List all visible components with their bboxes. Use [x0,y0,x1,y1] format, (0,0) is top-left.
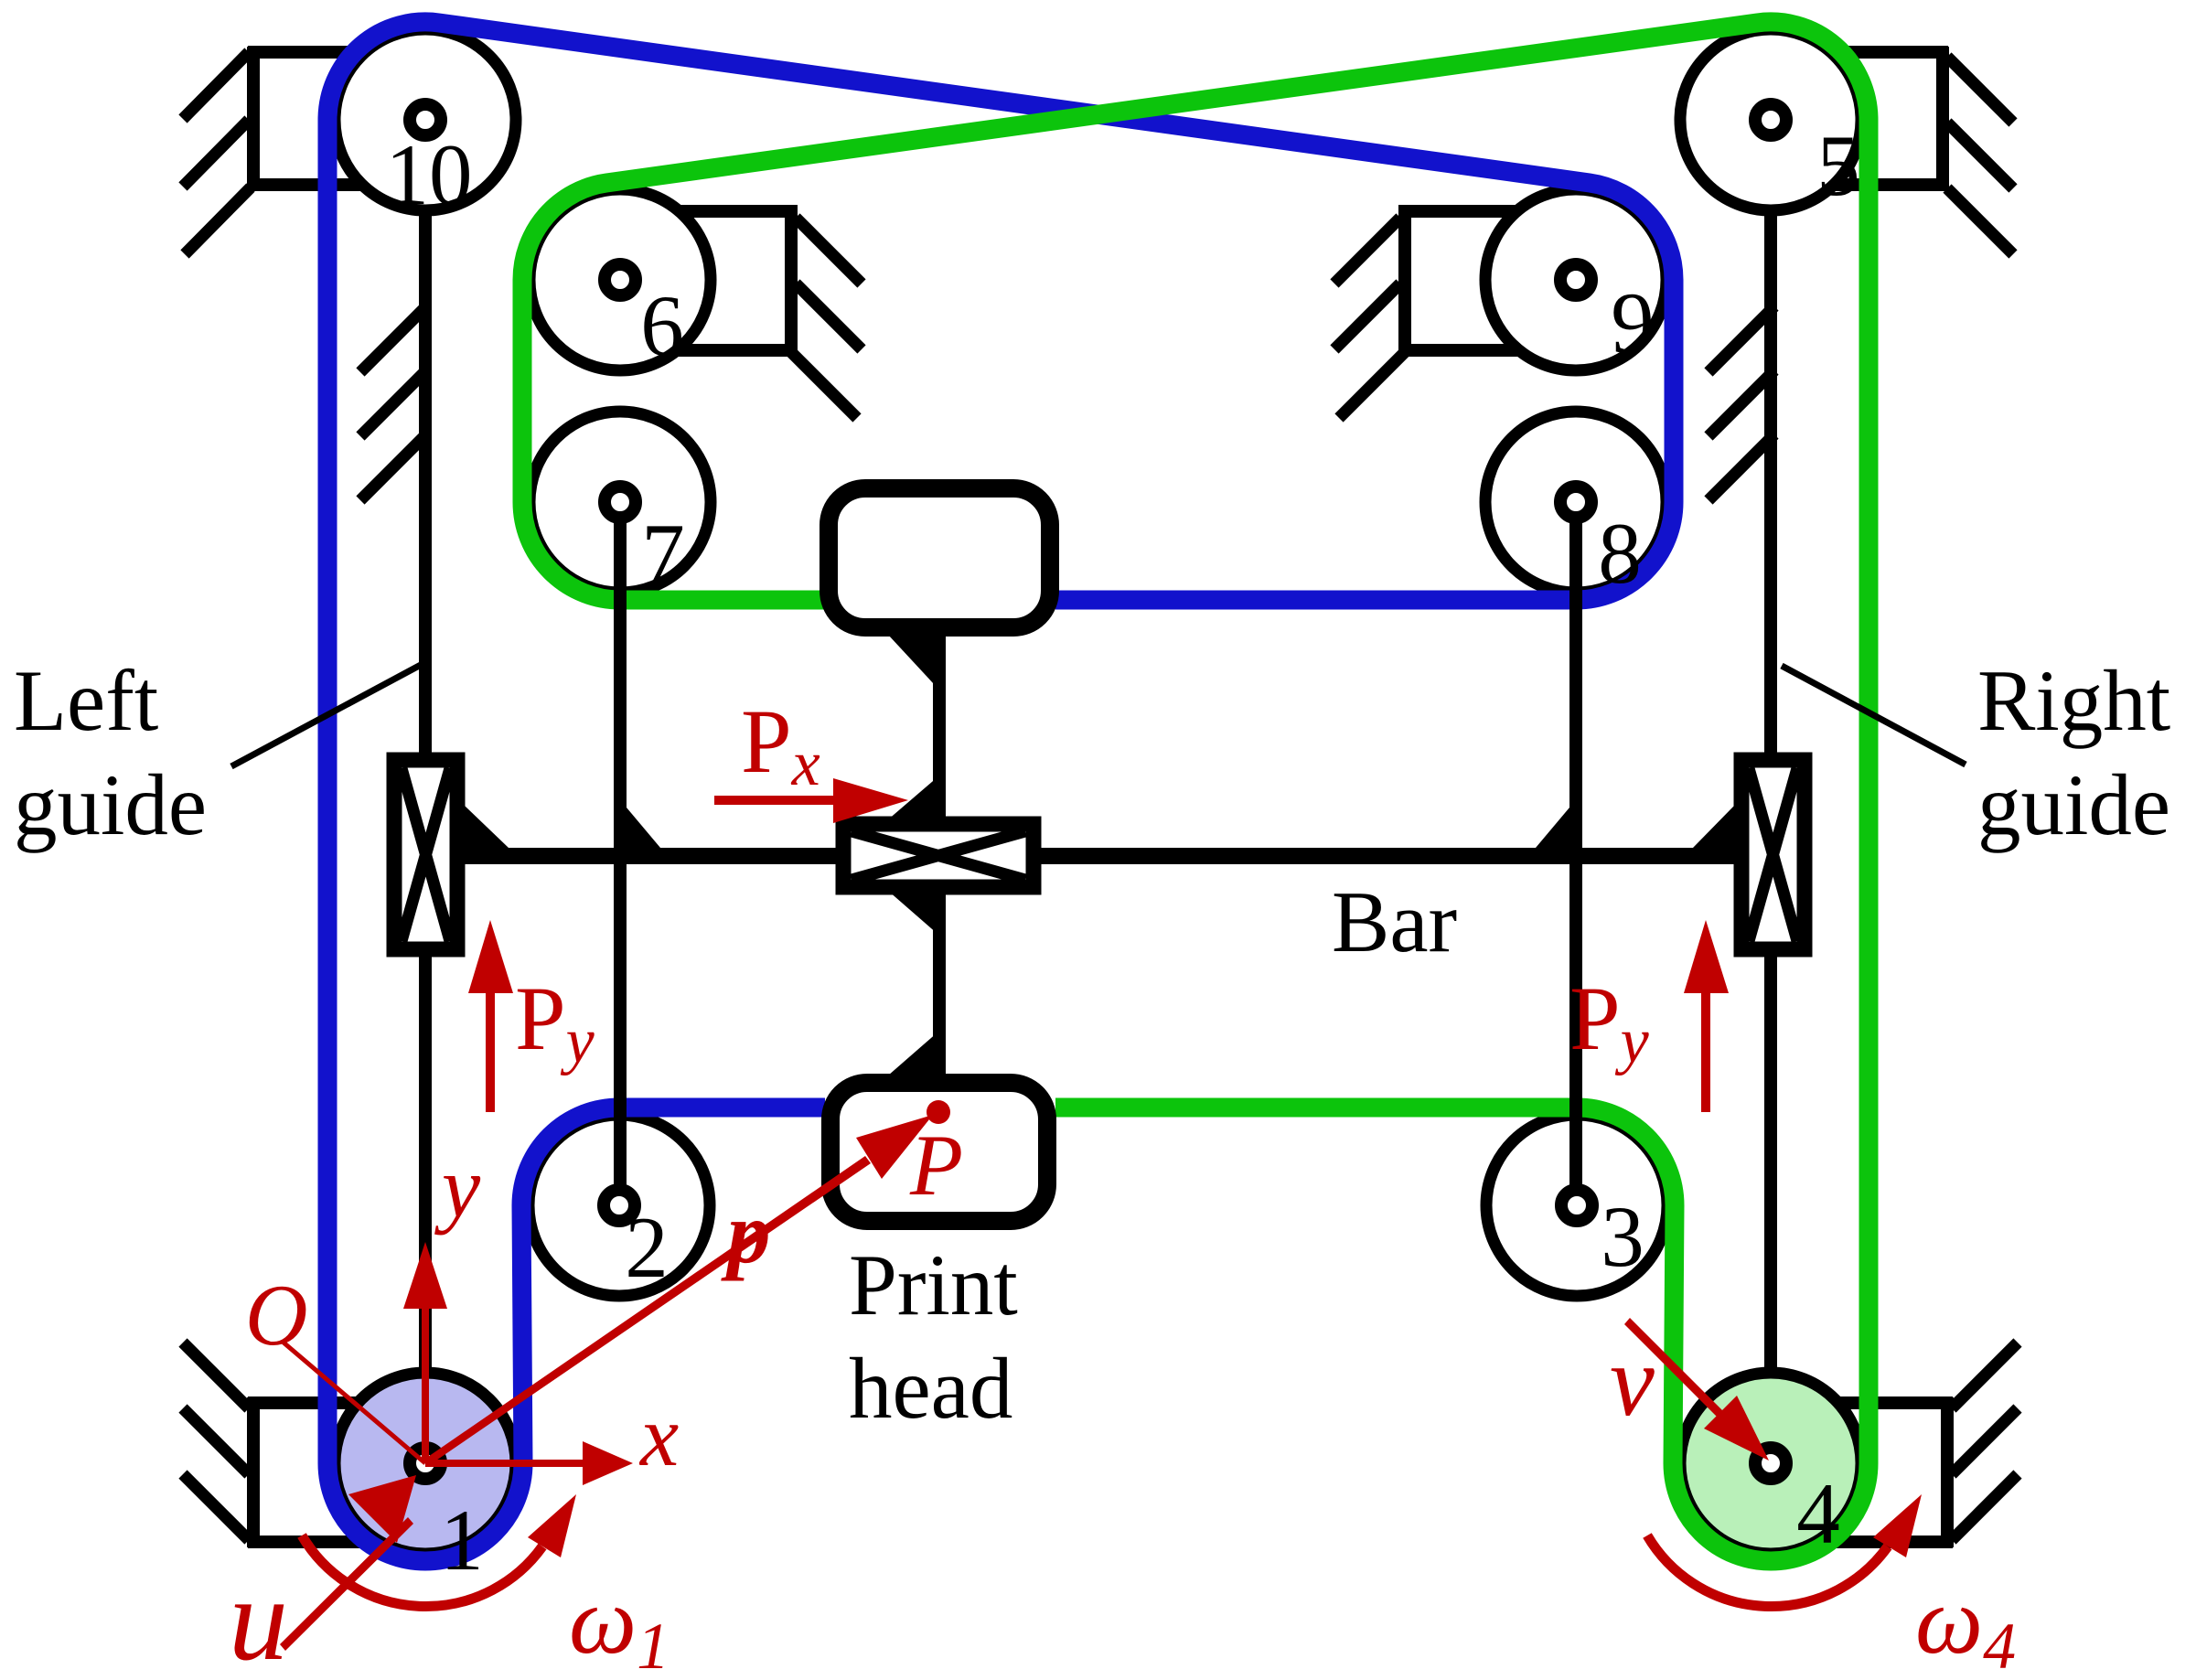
pulley 6 disc [530,189,711,370]
fillet at rod 7-2 / bar [627,808,660,848]
leader line from O to origin [284,1343,425,1463]
svg-text:Bar: Bar [1332,873,1457,970]
svg-text:3: 3 [1601,1188,1644,1285]
pulley 3 disc [1486,1115,1667,1296]
p position vector [423,1115,933,1466]
hub of pulley 10 [410,104,441,135]
force arrow Py right [1684,920,1729,1112]
pulley 10 disc [335,29,516,210]
svg-text:guide: guide [14,756,207,853]
fillet below central slider [888,891,946,941]
x axis arrow [425,1441,633,1485]
hub of pulley 6 [605,264,636,295]
svg-text:5: 5 [1816,117,1860,214]
svg-text:8: 8 [1598,505,1642,602]
hub of pulley 9 [1560,264,1591,295]
hub of pulley 7 [605,487,636,518]
right guide rod [1764,120,1777,1463]
pointer line to right guide [1782,666,1966,765]
hub of pulley 1 [410,1448,441,1479]
left slider (prismatic joint on left guide) [394,760,457,949]
svg-text:Right: Right [1977,652,2170,749]
svg-text:guide: guide [1977,756,2170,853]
v input arrow [1624,1318,1769,1461]
svg-text:p: p [721,1184,771,1281]
fillet below top box [888,635,946,697]
blue belt [327,22,1674,1561]
pulley 2 disc [529,1115,710,1296]
svg-text:9: 9 [1611,274,1655,371]
wall bracket bottom-left (fixed support of pulley 1) [183,1343,402,1547]
svg-text:y: y [434,1139,481,1236]
u input arrow [280,1475,416,1651]
svg-text:4: 4 [1796,1465,1840,1562]
hub of pulley 8 [1560,487,1591,518]
wall hatching on right guide [1709,306,1774,500]
hub of pulley 3 [1561,1190,1592,1221]
svg-text:6: 6 [640,277,684,374]
carriage rod above central slider [933,631,946,823]
wall hatching on left guide [360,306,426,500]
hub of pulley 5 [1755,104,1786,135]
svg-text:Left: Left [14,652,158,749]
wall bracket of pulley 6 [640,205,862,418]
point P marker [927,1100,950,1124]
svg-text:O: O [245,1267,308,1364]
omega1 rotation arc [302,1494,576,1607]
pulley 1 disc (motor pulley, blue) [335,1373,516,1554]
svg-text:7: 7 [641,506,685,603]
svg-text:x: x [638,1387,679,1484]
central slider (prismatic joint on bar) [843,824,1034,887]
left guide rod [419,120,432,1463]
top carriage box [829,488,1050,627]
svg-text:Print: Print [849,1236,1018,1333]
rod connecting pulleys 8 and 3 [1569,502,1582,1205]
hub of pulley 4 [1755,1448,1786,1479]
wall bracket bottom-right (fixed support of pulley 4) [1798,1343,2018,1547]
right slider (prismatic joint on right guide) [1741,760,1805,949]
pulley 8 disc [1485,412,1666,593]
svg-text:P: P [909,1117,963,1214]
svg-text:10: 10 [386,126,473,223]
wall bracket of pulley 9 [1334,205,1556,418]
pulley 7 disc [530,412,711,593]
rod connecting pulleys 7 and 2 [614,502,627,1205]
force arrow Py left [468,920,513,1112]
pointer line to left guide [231,665,421,766]
pulley 5 disc [1680,29,1861,210]
svg-text:2: 2 [625,1199,669,1296]
carriage rod below central slider [933,887,946,1079]
svg-text:head: head [849,1340,1012,1437]
print head box [830,1083,1047,1221]
wall bracket top-right (fixed support of pulley 5) [1793,47,2013,254]
pulley 4 disc (motor pulley, green) [1680,1373,1861,1554]
force arrow Px [714,778,908,823]
y axis arrow [403,1242,447,1463]
green belt [522,22,1869,1561]
svg-text:v: v [1610,1325,1655,1437]
svg-text:u: u [229,1554,288,1680]
fillet above print head [888,1025,946,1075]
fillet above central slider [887,770,946,820]
bar [448,848,1747,864]
fillet at left slider / bar [465,806,509,848]
pulley 9 disc [1485,189,1666,370]
hub of pulley 2 [604,1190,635,1221]
fillet at rod 8-3 / bar [1536,808,1569,848]
wall bracket top-left (fixed support of pulley 10) [183,47,402,254]
omega4 rotation arc [1647,1494,1922,1607]
svg-text:1: 1 [440,1492,484,1589]
fillet at right slider / bar [1693,806,1734,848]
